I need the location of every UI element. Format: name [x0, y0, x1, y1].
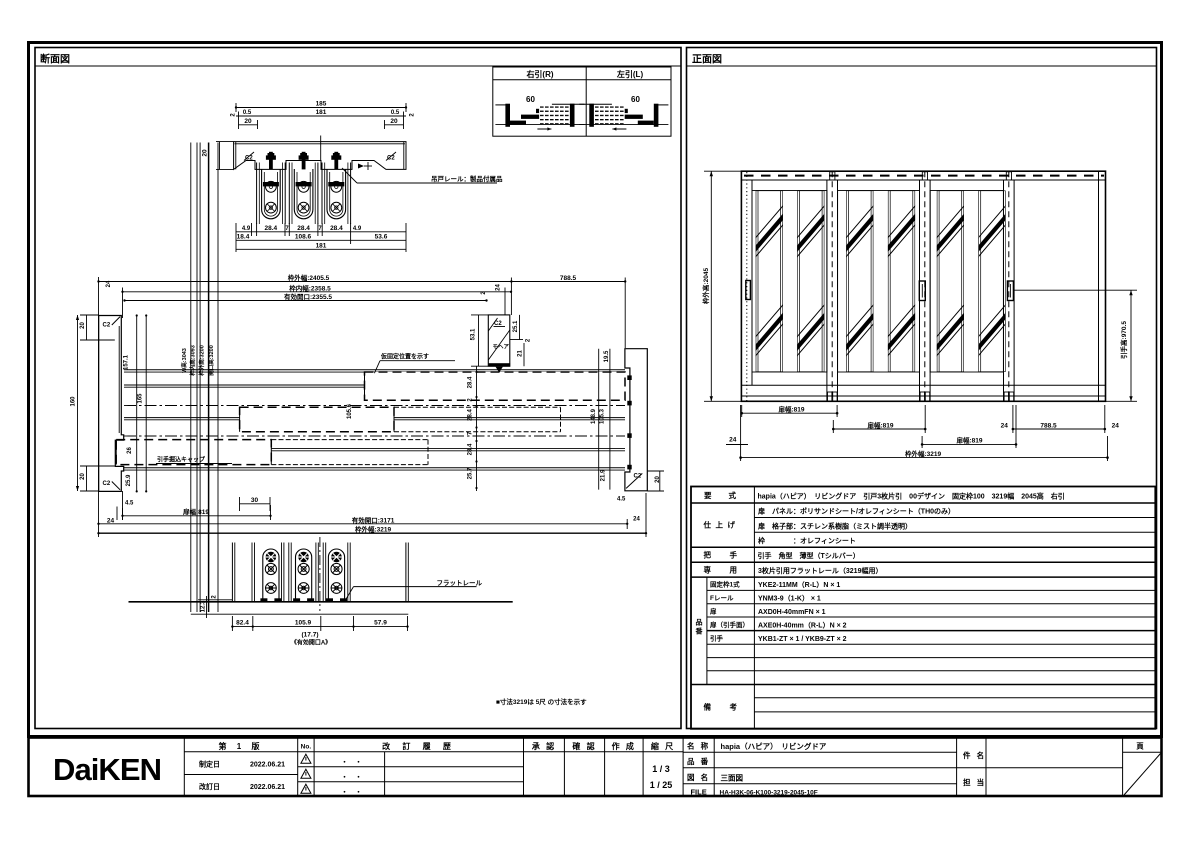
svg-text:枠 ：オレフィンシート: 枠 ：オレフィンシート	[758, 536, 856, 545]
svg-text:DaiKEN: DaiKEN	[53, 752, 161, 787]
svg-text:105.9: 105.9	[295, 620, 312, 627]
roller housing 2	[293, 549, 314, 602]
svg-text:固定枠1式: 固定枠1式	[710, 580, 740, 589]
件名/担当 cells	[957, 767, 1123, 769]
right handle height dimension 引手高:970.5	[1015, 289, 1138, 291]
svg-text:24: 24	[1001, 422, 1009, 429]
top rail band line	[741, 179, 1105, 181]
svg-text:28.4: 28.4	[468, 376, 474, 388]
svg-text:20: 20	[80, 322, 86, 329]
svg-text:25.1: 25.1	[513, 320, 519, 332]
right panel title bar line	[687, 65, 1157, 67]
svg-text:24: 24	[496, 284, 502, 291]
bottom track line	[741, 395, 1105, 397]
svg-text:60: 60	[631, 95, 640, 104]
svg-text:(17.7): (17.7)	[302, 632, 319, 639]
door leaf 2 dashed extension	[394, 406, 561, 408]
bottom dim row3 181	[236, 248, 406, 250]
名称/品番/図名/FILE label rows	[683, 751, 957, 753]
bottom dims 82.4/105.9/57.9	[231, 616, 233, 631]
warning triangle row3	[301, 784, 311, 793]
leader 吊戸レール	[342, 168, 357, 183]
left panel frame (cross-section view)	[35, 48, 681, 729]
dim 有効開口:3171	[626, 519, 628, 529]
svg-text:扉（引手面）: 扉（引手面）	[710, 620, 749, 629]
right wall edge line	[1098, 171, 1100, 401]
floor bottom line	[191, 613, 408, 615]
svg-text:788.5: 788.5	[1040, 422, 1057, 429]
svg-text:・ ・: ・ ・	[341, 789, 362, 796]
svg-text:3枚片引用フラットレール（3219幅用）: 3枚片引用フラットレール（3219幅用）	[758, 566, 882, 575]
svg-text:YKB1-ZT × 1 / YKB9-ZT × 2: YKB1-ZT × 1 / YKB9-ZT × 2	[758, 636, 847, 643]
svg-text:28.4: 28.4	[264, 225, 277, 232]
roller housing 3	[326, 549, 347, 602]
svg-text:25.7: 25.7	[468, 467, 474, 479]
dim 788.5 top right	[511, 281, 625, 283]
svg-text:把: 把	[704, 550, 712, 560]
svg-text:正面図: 正面図	[692, 54, 722, 66]
svg-text:20: 20	[244, 118, 252, 125]
svg-text:12.3: 12.3	[201, 600, 207, 612]
bottom dimension 扉幅:819 (panel1)	[741, 405, 743, 417]
dim 枠内幅:2358.5	[123, 291, 512, 293]
handle on panel 1	[746, 281, 751, 300]
top dashed rail line	[744, 175, 1104, 177]
svg-text:作 成: 作 成	[612, 741, 636, 751]
dim 有効開口:2355.5	[125, 300, 487, 302]
dimension 20 left / right	[238, 120, 240, 129]
svg-text:C2: C2	[103, 323, 111, 329]
dimension 0.5 / 181 / 0.5	[238, 112, 240, 121]
jamb dims 20/160/20	[80, 314, 99, 316]
svg-text:2022.06.21: 2022.06.21	[250, 784, 285, 791]
svg-text:20: 20	[80, 473, 86, 480]
svg-text:165: 165	[138, 393, 144, 404]
svg-text:備: 備	[704, 702, 712, 712]
svg-text:左引(L): 左引(L)	[616, 69, 644, 79]
svg-text:頁: 頁	[1136, 742, 1144, 751]
svg-text:フラットレール: フラットレール	[437, 579, 483, 587]
leader フラットレール	[346, 587, 354, 600]
jamb inner dims 157.1 / 165 / 26 / 25.9	[136, 316, 138, 492]
svg-text:hapia（ハピア） リビングドア: hapia（ハピア） リビングドア	[721, 741, 827, 751]
svg-text:20: 20	[202, 149, 209, 157]
svg-text:三面図: 三面図	[721, 774, 744, 783]
door section verticals	[231, 543, 233, 602]
svg-text:確 認: 確 認	[572, 741, 596, 751]
svg-text:0.5: 0.5	[391, 110, 400, 116]
svg-text:FILE: FILE	[690, 788, 706, 797]
door panel 2 glass lites	[844, 191, 875, 373]
svg-text:30: 30	[251, 497, 259, 504]
bottom dim row1 4.9/28.4/7/28.4/7/28.4/4.9	[235, 223, 237, 252]
title block column lines	[183, 738, 185, 796]
svg-text:制定日: 制定日	[199, 760, 220, 769]
svg-text:26: 26	[127, 447, 133, 454]
svg-text:4.5: 4.5	[617, 497, 626, 503]
dimension 185	[235, 103, 237, 112]
bottom dimension 扉幅:819 (panel3)	[921, 436, 923, 448]
svg-text:枠外高:2045: 枠外高:2045	[701, 268, 710, 305]
centreline	[319, 537, 321, 611]
left panel title bar line	[35, 65, 681, 67]
warning triangle row2	[301, 769, 311, 778]
svg-text:57.9: 57.9	[374, 620, 387, 627]
svg-text:改 訂 履 歴: 改 訂 履 歴	[382, 741, 456, 751]
svg-text:21.9: 21.9	[601, 469, 607, 481]
svg-text:・ ・: ・ ・	[341, 759, 362, 766]
svg-text:148.9: 148.9	[591, 408, 597, 424]
rail end blocks	[627, 375, 631, 380]
svg-text:105.6: 105.6	[347, 403, 353, 419]
left rail height dim 20	[216, 141, 234, 143]
left frame inner line	[751, 180, 753, 385]
svg-text:24: 24	[729, 437, 737, 444]
floor line	[129, 601, 513, 603]
svg-text:枠外幅:2405.5: 枠外幅:2405.5	[288, 273, 330, 282]
svg-text:品 番: 品 番	[687, 756, 710, 766]
No. column	[298, 751, 314, 753]
svg-text:手: 手	[730, 550, 738, 560]
svg-text:18.4: 18.4	[237, 233, 250, 240]
svg-text:108.6: 108.6	[295, 233, 312, 240]
title block outer frame	[29, 738, 1162, 797]
svg-text:図 名: 図 名	[687, 772, 710, 782]
dim 枠外幅:2405.5	[99, 281, 512, 283]
svg-text:24: 24	[106, 280, 112, 287]
bottom dims of plan	[122, 508, 124, 520]
front view outer frame	[741, 171, 1105, 401]
svg-text:断面図: 断面図	[40, 53, 70, 66]
svg-text:28.4: 28.4	[330, 225, 343, 232]
door leaf 3 dashed extension	[271, 439, 428, 441]
bottom door line	[741, 384, 1105, 386]
door panel 1 glass lites	[754, 191, 785, 373]
svg-text:1 / 3: 1 / 3	[652, 764, 670, 774]
handle on panel 2	[919, 281, 925, 301]
svg-text:2022.06.21: 2022.06.21	[250, 762, 285, 769]
door panel 1 outline	[752, 191, 827, 373]
svg-text:28.4: 28.4	[468, 409, 474, 421]
left height dimension 枠外高:2045	[710, 171, 712, 401]
svg-text:扉幅:819: 扉幅:819	[867, 420, 893, 429]
svg-text:要: 要	[704, 491, 712, 500]
svg-text:1 / 25: 1 / 25	[650, 780, 673, 790]
right jamb profile	[598, 349, 600, 490]
承認/確認/作成 headers	[524, 751, 684, 753]
svg-text:枠内幅:2358.5: 枠内幅:2358.5	[289, 283, 331, 292]
door leaf 3	[116, 440, 271, 465]
svg-text:扉 格子部：スチレン系樹脂（ミスト調半透明）: 扉 格子部：スチレン系樹脂（ミスト調半透明）	[757, 521, 912, 530]
bottom dim row2 18.4/108.6/53.6	[236, 239, 406, 241]
svg-text:105.3: 105.3	[600, 408, 606, 424]
svg-text:扉幅:819: 扉幅:819	[778, 405, 804, 414]
svg-text:788.5: 788.5	[560, 275, 577, 282]
top width dims	[98, 277, 100, 537]
svg-text:枠外幅:3219: 枠外幅:3219	[905, 449, 942, 458]
svg-text:C2: C2	[103, 481, 111, 487]
svg-text:枠外高:3200: 枠外高:3200	[198, 345, 206, 377]
svg-text:扉幅:819: 扉幅:819	[956, 436, 982, 445]
svg-text:24: 24	[107, 518, 115, 525]
svg-text:考: 考	[730, 702, 738, 712]
svg-text:YNM3-9（1-K） × 1: YNM3-9（1-K） × 1	[758, 595, 821, 603]
svg-text:枠外幅:3219: 枠外幅:3219	[355, 525, 392, 534]
svg-text:式: 式	[729, 490, 737, 500]
spec column lines	[753, 487, 755, 578]
svg-text:28.4: 28.4	[297, 225, 310, 232]
bottom dimension 扉幅:819 (panel2)	[832, 420, 834, 433]
svg-text:Fレール: Fレール	[710, 594, 734, 602]
左引 diagram	[579, 95, 668, 131]
centre post	[488, 315, 510, 366]
svg-text:有効開口:3171: 有効開口:3171	[352, 515, 395, 524]
svg-text:扉 パネル：ポリサンドシート/オレフィンシート（TH0のみ）: 扉 パネル：ポリサンドシート/オレフィンシート（TH0のみ）	[757, 507, 955, 516]
svg-text:有効開口:2355.5: 有効開口:2355.5	[284, 292, 332, 301]
svg-text:53.6: 53.6	[375, 233, 388, 240]
svg-text:20: 20	[390, 118, 398, 125]
dim 枠外幅:3219	[645, 493, 647, 537]
svg-text:引手高:970.5: 引手高:970.5	[1119, 321, 1128, 359]
projection lines from top rail	[190, 143, 192, 613]
post dims 53.1 / 25.1 / 21 / 2	[478, 315, 480, 366]
svg-text:吊戸レール：製品付属品: 吊戸レール：製品付属品	[431, 174, 503, 183]
svg-text:4.9: 4.9	[242, 226, 251, 232]
hanger assembly 3	[322, 152, 351, 224]
svg-text:82.4: 82.4	[236, 620, 249, 627]
svg-text:《有効開口A》: 《有効開口A》	[291, 639, 331, 647]
rotated dim column 28.4/2/28.4/7/28.4/25.7	[476, 366, 478, 491]
svg-text:品: 品	[696, 618, 703, 627]
svg-text:20: 20	[655, 476, 661, 483]
svg-text:HA-H3K-06-K100-3219-2045-10F: HA-H3K-06-K100-3219-2045-10F	[720, 790, 818, 797]
left jamb profile	[99, 316, 124, 492]
junction strip 2	[920, 171, 931, 401]
svg-text:60: 60	[526, 95, 535, 104]
改訂履歴 column	[314, 751, 523, 753]
left frame dotted line	[746, 172, 748, 401]
right panel frame (front view)	[687, 48, 1157, 729]
warning triangle row1	[301, 754, 311, 763]
第1版 cell	[184, 751, 297, 753]
svg-text:件 名: 件 名	[963, 750, 986, 760]
junction strip 1	[827, 171, 838, 401]
svg-text:仕: 仕	[703, 520, 712, 530]
hanger assembly 2	[289, 152, 318, 224]
svg-text:21: 21	[517, 350, 523, 357]
svg-text:承 認: 承 認	[532, 741, 556, 751]
svg-text:・ ・: ・ ・	[341, 774, 362, 781]
door panel 3 glass lites	[935, 191, 966, 373]
svg-text:YKE2-11MM（R-L）N × 1: YKE2-11MM（R-L）N × 1	[758, 581, 840, 589]
svg-text:枠内高:3093: 枠内高:3093	[189, 345, 197, 377]
dim 12.3 / 2	[198, 599, 232, 601]
door leaf 1 (dashed - temporary fixed position)	[365, 372, 626, 400]
svg-text:25.9: 25.9	[126, 474, 132, 486]
svg-text:用: 用	[730, 566, 738, 575]
svg-text:担 当: 担 当	[963, 777, 986, 787]
svg-text:第 1 版: 第 1 版	[219, 741, 264, 751]
svg-text:仮固定位置を示す: 仮固定位置を示す	[380, 353, 429, 361]
右引 diagram	[495, 95, 584, 131]
svg-text:W高:3043: W高:3043	[180, 348, 188, 373]
sheet outer border	[29, 43, 1162, 737]
svg-text:扉: 扉	[710, 606, 717, 615]
rail fixing arrow mark	[358, 164, 364, 169]
dim 30	[239, 497, 241, 511]
hanger assembly 1	[257, 152, 286, 224]
spec table outer	[691, 487, 1155, 729]
svg-text:引手 角型 薄型（Tシルバー）: 引手 角型 薄型（Tシルバー）	[758, 551, 860, 560]
svg-text:■寸法3219は 5尺 の寸法を示す: ■寸法3219は 5尺 の寸法を示す	[496, 697, 587, 706]
door leaf 2	[240, 407, 394, 432]
svg-text:モヘア: モヘア	[493, 344, 510, 351]
svg-text:AXE0H-40mm（R-L）N × 2: AXE0H-40mm（R-L）N × 2	[758, 622, 847, 630]
svg-text:縮 尺: 縮 尺	[651, 741, 675, 751]
svg-text:げ: げ	[728, 520, 736, 530]
svg-text:0.5: 0.5	[243, 110, 252, 116]
svg-text:24: 24	[633, 517, 640, 523]
svg-text:4.9: 4.9	[353, 226, 362, 232]
svg-text:hapia（ハピア） リビングドア 引戸3枚片引 00デザイ: hapia（ハピア） リビングドア 引戸3枚片引 00デザイン 固定枠100 3…	[758, 492, 1065, 501]
svg-text:157.1: 157.1	[124, 354, 130, 370]
頁 cell	[1123, 751, 1162, 753]
svg-text:名 称: 名 称	[687, 741, 710, 751]
svg-text:28.4: 28.4	[468, 443, 474, 455]
rail body	[234, 142, 406, 170]
junction strip 3	[1004, 171, 1015, 401]
svg-text:AXD0H-40mmFN × 1: AXD0H-40mmFN × 1	[758, 609, 826, 616]
svg-text:19.5: 19.5	[604, 350, 610, 362]
track rails (horizontal)	[124, 369, 625, 371]
svg-text:181: 181	[316, 109, 327, 116]
svg-text:No.: No.	[301, 744, 312, 751]
svg-text:引手掘込キャップ: 引手掘込キャップ	[157, 456, 206, 464]
svg-text:185: 185	[316, 101, 327, 108]
svg-text:番: 番	[695, 627, 704, 636]
svg-text:右引(R): 右引(R)	[525, 69, 553, 79]
svg-text:4.5: 4.5	[125, 501, 134, 507]
roller housing 1	[260, 549, 281, 602]
svg-text:24: 24	[1112, 422, 1120, 429]
svg-text:開口高:3200: 開口高:3200	[207, 345, 215, 376]
rail centre line	[320, 136, 322, 161]
svg-text:160: 160	[71, 396, 77, 407]
svg-text:引手: 引手	[710, 634, 724, 643]
spec row lines	[691, 502, 1155, 504]
overall width dimension 枠外幅:3219	[740, 405, 742, 461]
direction key box frame	[493, 67, 671, 136]
handle on panel 3	[1007, 281, 1013, 301]
svg-text:53.1: 53.1	[471, 328, 477, 340]
svg-text:扉幅:819: 扉幅:819	[183, 507, 209, 516]
svg-text:改訂日: 改訂日	[199, 782, 220, 791]
svg-text:上: 上	[716, 520, 724, 530]
svg-text:専: 専	[704, 565, 712, 575]
svg-text:181: 181	[316, 242, 327, 249]
